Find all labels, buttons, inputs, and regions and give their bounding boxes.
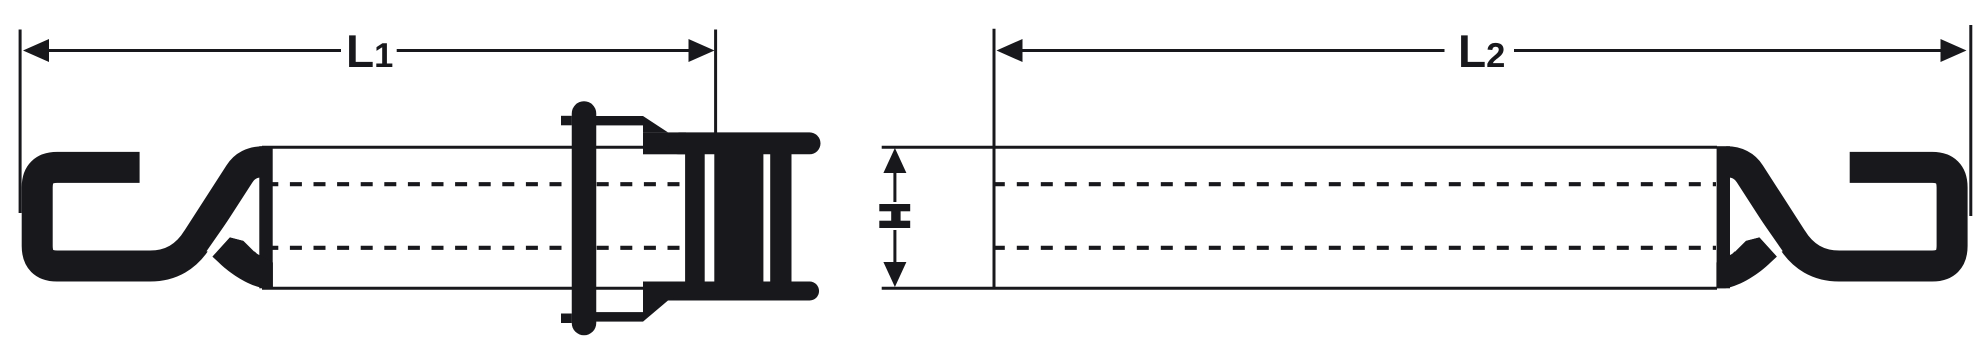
bottom flare	[643, 301, 668, 322]
right inner bar	[770, 153, 791, 283]
hook tip (J), mirrored	[1716, 237, 1777, 288]
side wall	[685, 153, 705, 283]
white notch triangle, mirrored	[1730, 183, 1782, 253]
top flare	[643, 116, 668, 132]
H arrow down	[883, 262, 906, 287]
right strap top border + H top tick	[882, 146, 1717, 149]
H arrow up	[883, 148, 906, 173]
top rail	[679, 132, 810, 154]
arrowhead L2 left	[997, 39, 1023, 62]
axle bar with round ends	[572, 114, 597, 324]
hook tip (J)	[212, 237, 273, 288]
S-hook body (C + diagonal), mirrored	[1726, 162, 1952, 266]
label H (rotated, drawn as bars)	[879, 204, 910, 228]
ratchet buckle	[561, 114, 810, 324]
left hook assembly	[37, 146, 273, 288]
arrowhead L1 right	[689, 39, 715, 62]
strap wrap band	[259, 146, 272, 288]
S-hook body (C + diagonal)	[37, 162, 263, 266]
top block	[643, 132, 686, 154]
left strap dashed stitch lines	[266, 184, 685, 248]
strap wrap band, mirrored	[1717, 146, 1730, 288]
left strap bottom border	[262, 287, 643, 290]
extension line right of L1 (at ratchet)	[714, 30, 717, 134]
extension line L2 right	[1969, 25, 1972, 216]
dimension line L2	[1020, 49, 1445, 52]
white notch triangle	[207, 183, 259, 253]
bottom rail	[679, 282, 810, 301]
right strap bottom border + H bottom tick	[882, 287, 1717, 290]
top stub	[561, 116, 572, 126]
H dimension vertical line	[893, 160, 896, 202]
arrowhead L1 left	[23, 39, 49, 62]
drum	[714, 153, 763, 283]
right strap dashed stitch lines	[993, 184, 1716, 248]
bottom stub	[561, 314, 572, 324]
arrowhead L2 right	[1941, 39, 1967, 62]
bottom block	[643, 282, 686, 301]
top connector bar	[596, 116, 643, 125]
extension line left (L1 start)	[19, 30, 22, 214]
bottom connector bar	[596, 312, 643, 322]
left strap top border	[262, 146, 643, 149]
right strap left border / L2 extension	[993, 29, 996, 288]
right hook assembly (mirror of left)	[1716, 146, 1952, 288]
dimension line L1	[47, 49, 341, 52]
